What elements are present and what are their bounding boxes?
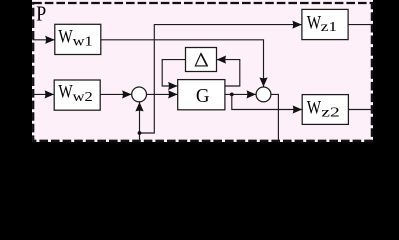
svg-text:W: W [58, 26, 72, 47]
svg-text:W: W [58, 81, 72, 102]
svg-text:z2: z2 [321, 104, 339, 119]
svg-text:w1: w1 [73, 35, 93, 49]
svg-text:P: P [36, 3, 46, 26]
svg-text:w2: w2 [73, 90, 93, 104]
svg-text:z1: z1 [321, 20, 338, 35]
svg-text:W: W [307, 97, 321, 118]
svg-text:W: W [307, 12, 321, 33]
svg-text:G: G [196, 84, 210, 107]
